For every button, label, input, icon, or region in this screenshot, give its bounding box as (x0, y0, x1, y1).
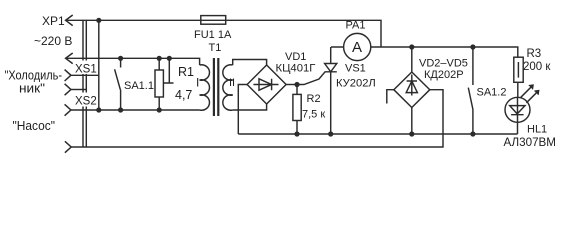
svg-text:"Насос": "Насос" (13, 118, 56, 133)
svg-text:XS1: XS1 (75, 64, 97, 76)
svg-text:SA1.1: SA1.1 (124, 80, 154, 92)
svg-text:HL1: HL1 (527, 124, 547, 136)
svg-text:VS1: VS1 (345, 63, 366, 75)
wire VD1 left vertex to lower node rail (238, 85, 247, 135)
wire bottom rail (71, 90, 443, 147)
wire mains pair vertical left (82, 20, 84, 147)
svg-text:I: I (196, 76, 199, 90)
transformer T1 primary winding I (200, 65, 210, 110)
plug XP1 pin 2 (66, 53, 73, 64)
svg-text:4,7: 4,7 (175, 88, 192, 102)
ammeter PA1 (331, 46, 381, 48)
svg-text:~220 В: ~220 В (34, 34, 72, 48)
svg-text:A: A (352, 39, 362, 56)
resistor R1 (158, 58, 160, 110)
svg-text:XS2: XS2 (75, 96, 97, 108)
thyristor VS1 (325, 47, 337, 134)
wire PA1 right to R3 corner (381, 47, 518, 57)
svg-text:КЦ401Г: КЦ401Г (276, 63, 316, 75)
svg-text:PA1: PA1 (346, 20, 366, 32)
svg-text:КД202Р: КД202Р (424, 69, 464, 81)
svg-text:VD2–VD5: VD2–VD5 (419, 58, 468, 70)
node junction bridge top (409, 44, 414, 49)
svg-text:XP1: XP1 (42, 14, 65, 28)
switch SA1.1 (115, 58, 121, 110)
svg-text:200 к: 200 к (523, 61, 551, 73)
wire lower node rail (238, 133, 517, 135)
plug XP1 pin 1 (66, 15, 73, 26)
wire XS2 contact 1 / block bottom to T1 primary bottom (71, 109, 200, 111)
node junction on top rail (96, 18, 101, 23)
svg-text:VD1: VD1 (285, 51, 306, 63)
label XS2 (74, 93, 98, 107)
svg-text:7,5 к: 7,5 к (302, 109, 325, 121)
socket XS2 contact 1 (65, 104, 71, 115)
wire T1 secondary bottom to VD1 bottom (233, 104, 267, 110)
wire mains pair vertical right (85, 20, 87, 147)
wire thyristor gate (297, 72, 325, 85)
socket XS2 contact 2 (65, 141, 71, 152)
svg-text:ник": ник" (19, 81, 45, 96)
node junction R2 top (294, 82, 299, 87)
wire vertical from top rail down to XS2 node (98, 20, 100, 110)
transformer T1 secondary winding II (223, 65, 233, 110)
svg-text:FU1 1A: FU1 1A (194, 29, 232, 41)
svg-text:R1: R1 (178, 65, 194, 79)
svg-text:T1: T1 (209, 42, 222, 54)
transformer T1 core (214, 58, 218, 116)
svg-text:R3: R3 (527, 48, 542, 60)
wire bridge bottom lead (411, 108, 413, 135)
label XS1 (74, 61, 97, 75)
svg-text:II: II (229, 77, 235, 89)
svg-text:SA1.2: SA1.2 (477, 87, 507, 99)
wire top rail from XP1 to corner above PA1 (66, 20, 381, 47)
LED HL1 emission arrows (521, 86, 538, 103)
rectifier block VD1 diamond (247, 65, 286, 104)
bridge VD2-VD5 inner diode (406, 75, 417, 96)
wire bridge top lead (411, 47, 413, 72)
resistor R3 (514, 57, 523, 82)
socket XS1 contact 2 (65, 84, 71, 95)
socket XS1 contact 1 (65, 70, 71, 81)
wire from XP1 pin 2 to T1 primary top (66, 58, 200, 65)
wire T1 secondary top to VD1 top (233, 60, 267, 66)
svg-text:R2: R2 (307, 93, 321, 105)
wire VD1 right vertex to gate node (286, 84, 300, 86)
wire XS1 contact 2 stub (71, 89, 86, 91)
LED HL1 (505, 97, 530, 122)
resistor R1 preset tap (164, 58, 174, 83)
switch SA1.2 (468, 47, 473, 134)
svg-text:АЛ307ВМ: АЛ307ВМ (504, 137, 557, 149)
rectifier block VD1 inner diode (253, 79, 278, 90)
resistor R2 (296, 85, 298, 135)
node junction XS2 (96, 107, 101, 112)
fuse FU1 (201, 16, 226, 25)
wire XS1 contact 1 to node (71, 74, 99, 76)
svg-text:КУ202Л: КУ202Л (336, 78, 376, 90)
bridge VD2-VD5 diamond (394, 72, 430, 108)
wire bridge left vertex down to node rail (387, 90, 394, 104)
